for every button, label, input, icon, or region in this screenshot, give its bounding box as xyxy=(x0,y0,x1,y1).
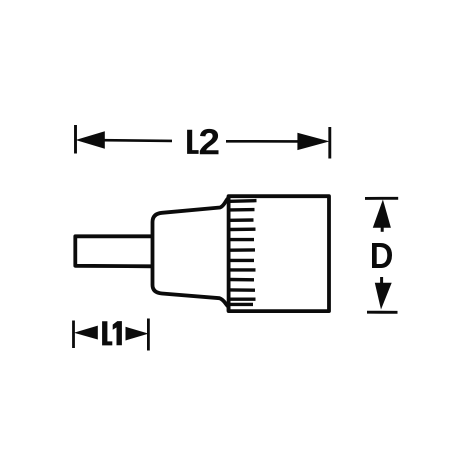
L2 right arrow xyxy=(297,133,329,150)
D bottom tick xyxy=(367,311,398,314)
L1 right arrow xyxy=(126,327,149,341)
knurl ridge 9 xyxy=(230,278,254,282)
knurl ridge 11 xyxy=(230,298,256,301)
L1 right tick xyxy=(147,319,150,351)
L2 label "L" xyxy=(187,130,199,154)
shaft (hex bit) xyxy=(75,236,152,266)
D down arrow stem xyxy=(380,277,383,284)
L2 label "2" xyxy=(200,129,219,154)
D up arrow xyxy=(373,200,391,228)
L2 dimension left tick xyxy=(74,125,77,154)
L1 dimension left tick xyxy=(72,321,75,349)
socket body xyxy=(229,196,329,311)
knurl left edge xyxy=(227,196,231,311)
L2 right line xyxy=(226,140,298,143)
L1 left arrow xyxy=(74,326,98,340)
collar (tapered section) xyxy=(153,198,229,307)
L2 right tick xyxy=(328,127,331,159)
knurl ridge 6 xyxy=(230,248,255,252)
knurl ridge 1 xyxy=(230,199,257,203)
D label xyxy=(372,243,392,268)
D dimension top tick xyxy=(365,197,398,200)
L2 left line xyxy=(103,139,172,142)
knurl ridge 12 xyxy=(230,303,253,306)
knurl ridge 2 xyxy=(230,208,255,212)
D down arrow xyxy=(375,283,392,310)
knurl ridge 7 xyxy=(230,259,254,262)
knurl ridge 3 xyxy=(230,218,254,222)
D up arrow stem xyxy=(381,226,384,232)
knurl ridge 8 xyxy=(230,268,256,271)
L1 label "1" xyxy=(113,321,122,345)
L1 label "L" xyxy=(102,321,112,345)
knurl ridge 10 xyxy=(230,288,255,292)
L2 left arrow xyxy=(76,131,105,149)
knurl ridge 5 xyxy=(230,238,254,241)
knurl ridge 4 xyxy=(230,227,256,231)
